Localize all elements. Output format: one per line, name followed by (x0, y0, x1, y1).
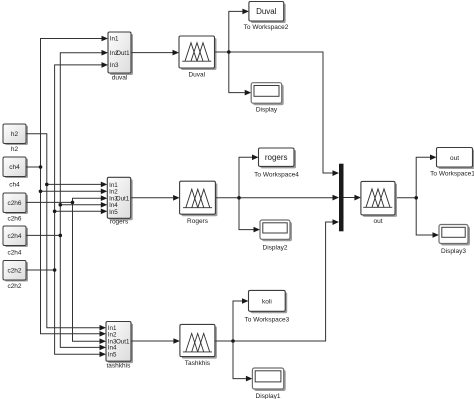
Display arrow (245, 90, 252, 96)
svg-text:Out1: Out1 (116, 50, 130, 57)
To Workspace4 arrow (252, 155, 259, 161)
To Workspace1 arrow (430, 155, 437, 161)
fuzzy block Rogers (180, 181, 218, 216)
wire h2 to trunk B (26, 134, 100, 328)
node rogers In5 junction (53, 210, 57, 214)
display Display2 (260, 220, 292, 241)
svg-text:Out1: Out1 (116, 195, 130, 202)
svg-text:To Workspace2: To Workspace2 (244, 24, 289, 31)
node c2h4-E junction (59, 234, 63, 238)
wire out branch down to Display3 (416, 198, 432, 235)
wire trunk B branch to rogers In1 (47, 183, 102, 185)
rogers input arrows (101, 182, 108, 215)
wire c2h4 to trunk E (26, 234, 60, 236)
svg-text:out: out (373, 218, 382, 225)
To Workspace2 arrow (242, 9, 249, 15)
wire out branch up to To Workspace1 (416, 157, 430, 198)
constant h2 (3, 124, 28, 145)
svg-text:tashkhis: tashkhis (106, 363, 131, 370)
mux input arrows (333, 170, 340, 176)
svg-text:In5: In5 (109, 209, 118, 216)
wire tashkhis Out1 to Tashkhis fuzzy (131, 340, 173, 342)
svg-text:c2h2: c2h2 (7, 268, 21, 275)
svg-text:koli: koli (262, 298, 272, 305)
svg-text:c2h6: c2h6 (7, 200, 21, 207)
wire trunk A duval In1 to tashkhis In2 (41, 39, 103, 334)
wire Duval fuzzy to mux input1 (215, 52, 333, 173)
node rogers In4 junction (59, 203, 63, 207)
node ch4-A junction (39, 165, 43, 169)
svg-text:rogers: rogers (265, 153, 288, 162)
svg-text:In5: In5 (108, 352, 117, 359)
constant c2h6 (3, 193, 28, 214)
wire trunk E duval In2 to tashkhis In4 (60, 53, 102, 348)
node out junction (414, 196, 418, 200)
mux (339, 164, 344, 232)
wire Duval branch up to To Workspace2 (229, 11, 243, 52)
svg-text:c2h4: c2h4 (7, 233, 21, 240)
svg-text:h2: h2 (11, 146, 19, 153)
wire Tashkhis branch down to Display1 (233, 341, 246, 379)
wire Rogers fuzzy to mux input2 (215, 197, 332, 199)
out fuzzy input arrow (354, 195, 361, 201)
subsystem tashkhis (106, 322, 133, 364)
constant c2h2 (3, 261, 28, 282)
wire Rogers branch down to Display2 (239, 198, 254, 230)
display Display3 (439, 225, 470, 246)
wire trunk E branch to rogers In4 (60, 204, 101, 206)
to workspace3 koli (249, 290, 288, 313)
Display1 arrow (246, 376, 253, 382)
Display3 arrow (433, 232, 440, 238)
svg-text:ch4: ch4 (9, 164, 20, 171)
node c2h6-F junction (71, 201, 75, 205)
svg-text:To Workspace3: To Workspace3 (245, 316, 290, 323)
svg-text:h2: h2 (11, 131, 19, 138)
svg-text:Rogers: Rogers (187, 218, 209, 225)
svg-text:Duval: Duval (256, 7, 277, 16)
wire c2h2 to trunk C (26, 269, 55, 271)
svg-text:ch4: ch4 (9, 182, 20, 189)
svg-text:c2h2: c2h2 (7, 283, 21, 290)
svg-text:In3: In3 (110, 62, 119, 69)
constant c2h4 (3, 226, 28, 247)
fuzzy block Duval (179, 36, 217, 70)
wire Tashkhis fuzzy to mux input3 (215, 222, 333, 341)
wire trunk C branch to rogers In5 (55, 210, 102, 212)
node c2h2-C junction (53, 268, 57, 272)
wire ch4 to trunk A (26, 166, 41, 168)
display Display (251, 83, 284, 106)
node Rogers junction (237, 196, 241, 200)
svg-text:Display1: Display1 (256, 393, 281, 399)
node Tashkhis junction (231, 339, 235, 343)
svg-text:To Workspace4: To Workspace4 (254, 171, 299, 178)
svg-text:To Workspace1: To Workspace1 (430, 170, 474, 177)
svg-text:Tashkhis: Tashkhis (185, 360, 211, 367)
subsystem rogers (107, 177, 132, 220)
node rogers In2 junction (39, 190, 43, 194)
wire out fuzzy to junction (395, 197, 416, 199)
fuzzy block out (361, 181, 397, 217)
wire Rogers branch up to To Workspace4 (239, 157, 252, 198)
svg-text:Out1: Out1 (116, 339, 130, 346)
svg-text:duval: duval (112, 75, 128, 82)
svg-text:Duval: Duval (188, 72, 205, 79)
wire c2h6 to trunk F (26, 201, 73, 203)
svg-text:c2h6: c2h6 (7, 215, 21, 222)
svg-text:out: out (450, 155, 459, 162)
svg-text:Display2: Display2 (263, 244, 288, 251)
svg-text:rogers: rogers (110, 219, 129, 226)
Display2 arrow (254, 227, 261, 233)
constant ch4 (3, 157, 28, 178)
svg-text:In1: In1 (110, 36, 119, 43)
tashkhis input arrows (100, 325, 107, 357)
wire Tashkhis branch up to To Workspace3 (233, 301, 242, 341)
wire rogers Out1 to Rogers fuzzy (131, 197, 173, 199)
wire trunk A branch to rogers In2 (41, 190, 102, 192)
fuzzy block Tashkhis (180, 324, 217, 358)
node Duval junction (227, 50, 231, 54)
svg-text:In2: In2 (108, 331, 117, 338)
wire trunk C duval In3 to tashkhis In5 (55, 65, 102, 354)
to workspace1 out (437, 148, 474, 170)
wire trunk F rogers In3 to tashkhis In3 (73, 198, 102, 341)
wire Duval branch down to Display (229, 52, 245, 93)
To Workspace3 arrow (242, 298, 249, 304)
wire mux to out fuzzy (344, 197, 355, 199)
duval input arrows (102, 36, 109, 68)
to workspace4 rogers (259, 148, 297, 168)
display Display1 (252, 368, 285, 391)
to workspace2 Duval (249, 2, 286, 24)
wire duval Out1 to Duval fuzzy (131, 52, 173, 54)
node rogers In1 junction (45, 183, 49, 187)
svg-text:Display: Display (256, 106, 278, 113)
svg-text:c2h4: c2h4 (7, 250, 21, 257)
svg-text:Display3: Display3 (441, 248, 466, 255)
subsystem duval (108, 32, 133, 75)
